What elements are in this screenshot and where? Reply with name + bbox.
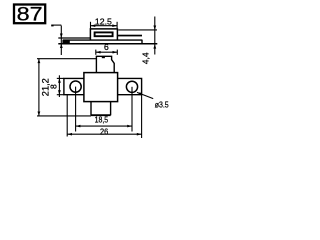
dim 12.5 extension ticks bbox=[90, 22, 92, 28]
hole diameter leader arrow bbox=[137, 92, 142, 95]
dim 21,2 lower arrow bbox=[38, 112, 41, 116]
side view: flange right end edge bbox=[141, 40, 143, 44]
bottom view: top tab nub bbox=[102, 56, 105, 58]
side view: lid slot bbox=[95, 32, 113, 36]
side view: flange top line bbox=[63, 39, 142, 41]
bottom view: right ear bbox=[118, 78, 142, 94]
dim 6 right arrow bbox=[113, 51, 118, 54]
svg-text:18,5: 18,5 bbox=[95, 115, 109, 125]
dim 4,4 top extension bbox=[118, 29, 157, 31]
left thickness dim upper arrow bbox=[60, 34, 63, 38]
dim 26 right arrow bbox=[137, 133, 142, 136]
dim 18,5 line bbox=[76, 125, 132, 127]
dim 21,2 bottom extension bbox=[37, 115, 91, 117]
bottom view: bottom tab left edge bbox=[90, 102, 92, 116]
left thickness dim line bbox=[60, 26, 62, 56]
dim 8 upper arrow bbox=[58, 78, 61, 82]
bottom view: bottom tab bottom edge bbox=[91, 114, 111, 116]
dim 26 right extension bbox=[141, 95, 143, 138]
dim 6 left arrow bbox=[96, 51, 101, 54]
dim 6 extension ticks bbox=[95, 50, 97, 55]
svg-text:26: 26 bbox=[100, 127, 108, 137]
left thickness dim shelf end tick bbox=[51, 25, 53, 27]
dim 8 extension ticks bbox=[57, 77, 64, 79]
svg-text:87: 87 bbox=[17, 4, 43, 25]
dim 18,5 left arrow bbox=[76, 125, 81, 128]
svg-text:6: 6 bbox=[104, 42, 109, 52]
dim 18,5 right arrow bbox=[127, 125, 132, 128]
dim 21,2 line bbox=[38, 59, 40, 116]
dim 6 line bbox=[96, 51, 118, 53]
dim 4,4 upper arrow bbox=[153, 26, 156, 30]
dim 21,2 top extension bbox=[37, 58, 96, 60]
side view: flange bottom line bbox=[58, 43, 157, 45]
side view: ceramic cap outline bbox=[90, 29, 117, 40]
dim 8 lower arrow bbox=[58, 90, 61, 94]
side view: flange left end block bbox=[62, 40, 69, 44]
left thickness dim shelf bbox=[51, 24, 61, 26]
side view: left lead bbox=[58, 37, 91, 39]
bottom view: right hole bbox=[126, 81, 137, 92]
dim 4,4 line bbox=[154, 17, 156, 55]
bottom view: body square bbox=[84, 73, 118, 102]
bottom view: left ear bbox=[64, 78, 84, 94]
svg-text:8: 8 bbox=[49, 84, 59, 89]
case number box 87 bbox=[14, 5, 45, 24]
left thickness dim lower arrow bbox=[60, 44, 63, 48]
dim 26 left arrow bbox=[67, 133, 72, 136]
bottom view: top tab trapezoid bbox=[96, 56, 114, 72]
dim 26 line bbox=[67, 133, 141, 135]
dim 18,5 right extension bbox=[131, 87, 133, 132]
bottom view: bottom tab right edge bbox=[110, 102, 112, 116]
dim 8 line bbox=[58, 75, 60, 97]
dim 12.5 right arrow bbox=[112, 24, 117, 27]
hole diameter leader line bbox=[137, 92, 153, 98]
svg-text:4,4: 4,4 bbox=[140, 52, 150, 64]
dim 12.5 left arrow bbox=[91, 24, 96, 27]
dim 12.5 line bbox=[91, 25, 118, 27]
dim 18,5 left extension bbox=[75, 87, 77, 132]
dim 4,4 lower arrow bbox=[153, 44, 156, 48]
dim 26 left extension bbox=[66, 95, 68, 137]
side view: right lead bar bbox=[117, 35, 142, 37]
bottom view: left hole bbox=[70, 81, 81, 92]
dim 21,2 upper arrow bbox=[38, 59, 41, 63]
svg-text:12.5: 12.5 bbox=[95, 16, 112, 26]
svg-text:ø3.5: ø3.5 bbox=[155, 99, 169, 109]
